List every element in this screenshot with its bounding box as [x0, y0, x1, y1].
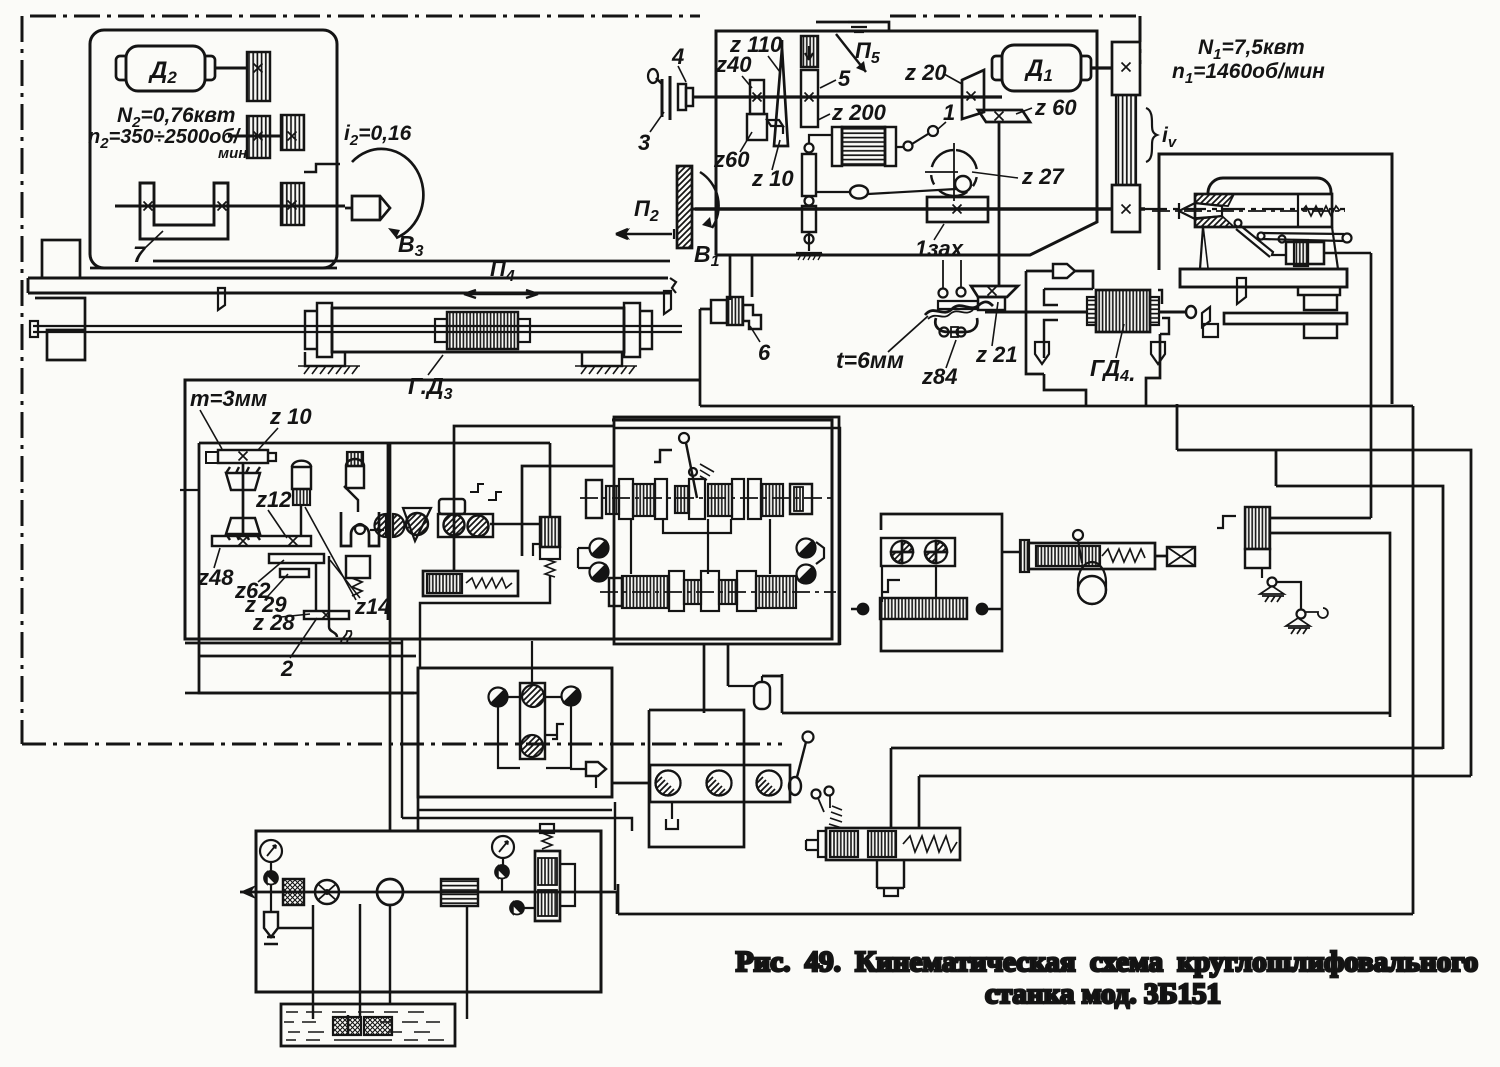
banner to frame wire	[1075, 271, 1093, 289]
interlock ball	[1073, 530, 1083, 540]
leader z48	[214, 548, 220, 568]
GD3 support right	[582, 352, 622, 366]
belt pulley column 1 lower	[247, 116, 270, 158]
spool legs	[877, 860, 904, 888]
ratchet cross	[925, 143, 958, 201]
shaft IV centerline	[600, 591, 836, 593]
relief side pipe	[523, 864, 575, 908]
strainer stem	[270, 892, 272, 912]
pump block frame	[881, 538, 955, 566]
leader z20	[944, 74, 962, 84]
ratchet z27 circle	[931, 150, 977, 196]
link pin 1	[928, 126, 938, 136]
tank filter 2	[364, 1017, 392, 1035]
electromagnet right plate	[885, 127, 896, 166]
motor D2 body	[126, 46, 205, 91]
spindle shaft II	[695, 207, 1145, 210]
throttle circle 2	[707, 765, 737, 795]
rack rod upper	[802, 154, 816, 196]
under-gear frame	[663, 519, 731, 533]
leader z10	[772, 140, 780, 170]
throttle lever eye	[789, 777, 801, 795]
hydraulic cylinder GD3 body	[332, 308, 624, 352]
GD4 mount frame	[1044, 289, 1169, 358]
wire y466	[522, 466, 614, 556]
banner valve	[1053, 264, 1075, 278]
leaf spring lower line	[928, 310, 973, 319]
traverse piston	[1036, 546, 1100, 566]
lower slide	[1224, 313, 1347, 324]
gear cluster III d	[708, 484, 732, 516]
workpiece spindle shaft	[115, 205, 345, 208]
gear z40	[750, 80, 764, 114]
spindle centerline to tailstock	[1145, 208, 1345, 210]
tank filter 1	[333, 1017, 361, 1035]
table top rail	[28, 278, 670, 293]
bearing x	[988, 287, 997, 296]
roller cross circle	[444, 515, 465, 536]
pilot box D frame	[418, 668, 612, 797]
split clutch circle	[375, 514, 405, 537]
gauge tab right	[816, 542, 824, 564]
pilot links	[508, 641, 561, 697]
wire bus y406	[700, 405, 1413, 408]
wire y450	[1177, 450, 1471, 776]
pilot bottom wires	[498, 706, 571, 768]
shaft III left end block	[586, 480, 602, 518]
leader 5	[820, 80, 836, 88]
dashpot outer	[423, 571, 518, 596]
machine outline dash-dot border top	[30, 15, 700, 18]
backrest bracket	[1217, 516, 1236, 528]
inner drop wire	[1370, 253, 1373, 518]
pilot valve body	[540, 547, 560, 559]
tank body	[281, 1004, 455, 1046]
motor D1 body	[1002, 45, 1081, 91]
axis centerline	[1152, 210, 1345, 212]
rack stub right	[268, 453, 276, 461]
table stop dog right	[664, 291, 671, 314]
selector lever ball	[679, 433, 689, 443]
svg-text:3: 3	[638, 130, 650, 155]
traverse cylinder body	[1028, 543, 1155, 569]
pump circle 2	[925, 541, 947, 563]
leader 1zax	[934, 224, 944, 240]
svg-text:z 28: z 28	[252, 610, 295, 635]
clutch block 5 upper	[801, 36, 818, 67]
gauge 2 valve	[495, 865, 508, 878]
rack gear z10	[218, 450, 268, 463]
spool drain bracket	[884, 888, 898, 896]
table support	[1298, 287, 1340, 310]
bevel gear lower	[226, 518, 260, 540]
pilot bracket	[545, 724, 564, 739]
roller slot circle	[468, 516, 489, 537]
pump out wire	[1002, 551, 1020, 553]
gear cluster III a	[606, 486, 619, 514]
gear IV a	[622, 576, 669, 608]
leader 4	[678, 66, 686, 82]
leader z84	[946, 340, 956, 368]
bearing x	[144, 202, 153, 211]
cone pulley z110	[774, 40, 788, 146]
headstock gearbox frame	[716, 31, 1097, 255]
cap e	[748, 479, 761, 519]
bar end ball	[1343, 234, 1352, 243]
leader z60h	[1016, 108, 1032, 114]
wire m1	[185, 692, 199, 695]
strainer outlet wire	[278, 927, 313, 929]
ball check right	[977, 604, 988, 615]
linkage pin B	[1297, 610, 1306, 619]
headstock drop wires	[730, 255, 752, 300]
tailstock roof cap	[1208, 178, 1331, 194]
feed box frame inner	[199, 443, 550, 693]
wire bus y914	[618, 913, 1413, 916]
svg-text:1: 1	[943, 100, 955, 125]
handwheel 3	[662, 76, 670, 120]
wire bus y748	[891, 747, 1443, 750]
ground A	[1260, 586, 1284, 602]
roller cap block	[439, 499, 465, 514]
feed box double bottom	[185, 643, 416, 656]
feed gear small	[1294, 240, 1308, 266]
handwheel hub 4	[678, 84, 686, 110]
bar mid pin	[1279, 236, 1286, 243]
outflow arrow	[240, 885, 256, 899]
lead screw left cap	[30, 321, 38, 337]
small bracket b	[1203, 324, 1218, 337]
leader 3	[650, 112, 664, 132]
wire from 6	[700, 309, 711, 406]
pilot rotor lower	[521, 735, 543, 757]
selector pivot	[689, 468, 697, 476]
rotation arc B1	[700, 172, 719, 228]
gear z60s	[747, 114, 767, 140]
leader t	[888, 316, 928, 352]
plunger striped	[293, 489, 310, 505]
bearing x	[1122, 63, 1131, 72]
drain hook b	[488, 492, 502, 500]
leader z14b	[330, 560, 360, 598]
gear 5 z200	[801, 70, 818, 127]
tank pipes	[313, 904, 467, 1035]
arrow P4 double	[464, 290, 538, 298]
machine outline dash-dot border top right	[890, 15, 1140, 18]
svg-text:z 21: z 21	[975, 342, 1018, 367]
main suction line	[240, 891, 601, 894]
link shaft right	[490, 523, 540, 525]
wire roller feed	[454, 426, 614, 571]
pilot box D inner bottom	[418, 809, 612, 811]
GD3 piston hubs	[435, 319, 447, 342]
GD4 circuit left	[1026, 271, 1053, 374]
drop links	[631, 519, 770, 574]
svg-text:z40: z40	[715, 52, 752, 77]
gear IV c	[719, 580, 737, 604]
shift fork z10	[767, 120, 783, 134]
machine outline dash-dot border left	[21, 16, 24, 744]
left pedestal lower	[35, 298, 85, 360]
wire x782 riser	[762, 674, 782, 713]
wire left col b	[417, 668, 420, 831]
cam rollers	[940, 328, 949, 337]
dresser table	[1180, 269, 1347, 287]
brace iv	[1146, 108, 1157, 162]
leaf spring t=6mm	[925, 302, 993, 315]
svg-text:z12: z12	[255, 487, 292, 512]
traverse spring	[1102, 549, 1145, 562]
GD4 ring right	[1150, 297, 1159, 325]
spool section 2	[868, 831, 896, 857]
gear z48 bar	[212, 536, 311, 546]
switch 6 bracket	[743, 305, 761, 329]
GD4 shaft right	[1159, 311, 1187, 314]
cam lobe z84	[935, 318, 977, 332]
plunger knob	[292, 467, 311, 489]
wire V1 drop	[420, 575, 550, 668]
gearbox output block 1zax	[927, 197, 988, 222]
rack cap	[206, 452, 218, 463]
gear z28 bar	[304, 611, 349, 619]
gear cluster III c	[675, 486, 689, 513]
pawl circle	[955, 176, 971, 192]
bar pin	[1258, 233, 1265, 240]
throttle bracket	[666, 802, 678, 829]
shaft to gearbox	[694, 96, 716, 99]
GD3 support left	[305, 352, 345, 366]
pump bracket	[882, 580, 900, 592]
X box diagonals	[1167, 547, 1195, 566]
GD4 ring left	[1087, 297, 1096, 325]
rack to magnet wire	[809, 135, 832, 143]
cap IV a	[669, 571, 684, 611]
wire right edge drop	[1412, 406, 1415, 914]
cap IV b	[701, 571, 719, 611]
bearing x	[1122, 205, 1131, 214]
ball check left	[858, 604, 869, 615]
interlock drum	[1078, 576, 1106, 604]
dashpot spring	[466, 578, 512, 588]
clevis top stem	[344, 486, 358, 512]
backrest wire 1	[1270, 517, 1371, 520]
bearing x	[218, 202, 227, 211]
throttle circle 1	[656, 765, 686, 795]
drain hook a	[470, 484, 484, 492]
leader z29	[268, 574, 288, 596]
leader 2	[290, 618, 317, 658]
gear IV b	[684, 580, 701, 604]
pilot gauge right	[562, 687, 581, 706]
rotation arrow B3	[352, 149, 423, 238]
svg-text:m=3мм: m=3мм	[190, 386, 267, 411]
lead screw	[33, 326, 682, 332]
ratchet striped	[347, 452, 363, 466]
ground hatch left support	[298, 366, 360, 374]
pedestal slant right	[1332, 227, 1338, 269]
belt pulley column 2 lower	[281, 183, 304, 225]
pilot rotor upper	[522, 685, 544, 707]
motor D2 shaft	[215, 67, 247, 70]
linkage end curl	[1306, 608, 1328, 618]
accumulator stub	[728, 676, 762, 686]
throttle valve 3-circle body	[650, 765, 790, 802]
B1 arrowhead	[702, 217, 712, 228]
filter fine	[283, 879, 304, 905]
shaft IV left end	[609, 578, 622, 606]
arrow P5	[836, 34, 866, 72]
linkage pin A	[1268, 578, 1277, 587]
middle shaft	[228, 135, 281, 138]
svg-text:z48: z48	[197, 565, 234, 590]
P5 inner box top	[816, 22, 889, 31]
lever eye	[850, 186, 868, 199]
cone clutch triangle	[403, 508, 431, 541]
lever to rack	[817, 191, 850, 193]
svg-text:z 10: z 10	[269, 404, 312, 429]
wire y818	[402, 818, 632, 831]
wire pair under cluster	[704, 644, 728, 713]
funnel left	[1035, 342, 1049, 364]
pressure gauge 1	[260, 840, 282, 862]
clevis bracket	[341, 512, 379, 546]
relief side valve	[510, 901, 523, 914]
motor GD4 body	[1096, 290, 1150, 332]
handwheel knob	[656, 78, 662, 84]
leader z40	[742, 76, 752, 88]
heat exchanger	[441, 879, 478, 906]
wire x615 drop	[614, 802, 616, 890]
leader z60	[740, 132, 752, 152]
vertical shaft 2	[315, 563, 317, 612]
selector bracket	[654, 450, 672, 462]
roller tab	[951, 327, 958, 337]
funnel stem	[570, 769, 596, 788]
accumulator capsule	[754, 682, 770, 709]
handle lever 2	[329, 556, 337, 637]
roller pacman circle	[406, 513, 428, 535]
belt pulley column 1 upper	[247, 52, 270, 101]
spool section 1	[830, 831, 858, 857]
gauge 2 stem	[502, 858, 503, 892]
bearing x	[289, 537, 298, 546]
pump box	[882, 566, 936, 602]
belt iv pulley bottom	[1112, 185, 1140, 232]
belt iv edges	[1116, 95, 1136, 185]
leader m	[200, 410, 222, 449]
dresser box frame	[1159, 154, 1392, 404]
cock cross	[318, 884, 336, 900]
bearing x	[254, 64, 263, 73]
backrest wire 2	[1270, 533, 1390, 717]
shaft III centerline	[580, 497, 836, 499]
dresser lever arm	[1236, 226, 1286, 257]
hydraulic power unit frame	[256, 831, 601, 992]
leader z62	[258, 560, 284, 582]
interlock inner	[1078, 562, 1106, 604]
feed block	[1308, 242, 1324, 264]
quill wedge lower	[1195, 216, 1234, 227]
four way cock	[315, 880, 339, 904]
wire x891 drop	[890, 748, 893, 828]
serrated spring	[829, 806, 842, 828]
GD4 drop wires	[1044, 334, 1160, 406]
feed gear housing	[1286, 242, 1324, 264]
relief valve cap	[540, 824, 554, 833]
z21 body	[978, 297, 1005, 310]
bearing x	[254, 132, 263, 141]
wire y486	[1276, 486, 1443, 749]
bearing x	[967, 92, 976, 101]
svg-text:z 200: z 200	[831, 100, 887, 125]
backrest valve striped	[1245, 507, 1270, 549]
GD3 left gland	[305, 303, 332, 357]
crank arm on pulley	[304, 164, 340, 172]
leader GD3	[428, 355, 443, 375]
relief valve spring	[542, 833, 552, 849]
leader z200	[818, 114, 830, 120]
bevel z20	[962, 70, 984, 119]
wheel feed stub	[673, 229, 675, 239]
gauge circle R2	[797, 565, 816, 584]
svg-text:2: 2	[280, 656, 294, 681]
pump circle 1	[891, 541, 913, 563]
wheelhead base plate	[90, 261, 670, 268]
gauge circle L2	[590, 563, 609, 582]
pilot valve column	[520, 683, 545, 759]
leader 7	[145, 231, 163, 248]
leader GD4	[1116, 324, 1124, 358]
tailstock body	[1195, 194, 1332, 227]
svg-text:n1=1460об/мин: n1=1460об/мин	[1172, 60, 1325, 87]
tank oil dashes	[284, 1012, 444, 1040]
svg-text:7: 7	[133, 242, 147, 267]
linkage bar	[1277, 582, 1301, 610]
arrow P2	[616, 229, 672, 239]
wire left col a	[389, 444, 392, 831]
rack pin bottom	[805, 235, 814, 244]
roller box	[438, 514, 493, 537]
pump box outer	[881, 514, 1002, 651]
gear IV d	[756, 576, 796, 608]
X box coupling	[1167, 547, 1195, 566]
leader z14a	[305, 507, 356, 600]
spool left cap	[818, 831, 826, 857]
bearing x	[288, 201, 297, 210]
relief valve spool	[538, 858, 557, 885]
MAIN GROUPS INSERTED BELOW	[22, 16, 1140, 744]
cap IV c	[737, 571, 756, 611]
gauge 1 valve	[264, 871, 277, 884]
gear cluster III e	[761, 484, 783, 516]
linkage stem	[1262, 568, 1272, 586]
gauge circle L1	[590, 539, 609, 558]
shaft III right end block	[790, 484, 812, 514]
electromagnet coil	[842, 127, 885, 165]
motor D1 left cap	[992, 56, 1002, 80]
cap c	[689, 479, 705, 519]
cap a	[619, 479, 633, 519]
feed box frame outer	[185, 380, 832, 639]
bearing x	[753, 93, 762, 102]
aux motor block	[880, 598, 967, 619]
ground under rack	[796, 253, 822, 260]
gear cluster III b	[633, 484, 655, 516]
selector lever rod	[686, 443, 697, 498]
bevel z60h	[978, 110, 1030, 122]
electromagnet left plate	[832, 127, 842, 166]
input shaft I	[716, 95, 1002, 98]
